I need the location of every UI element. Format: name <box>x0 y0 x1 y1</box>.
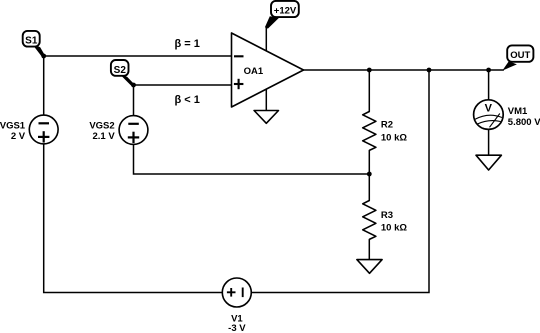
svg-text:β < 1: β < 1 <box>175 94 200 106</box>
svg-text:VGS2: VGS2 <box>89 121 114 132</box>
svg-text:10 kΩ: 10 kΩ <box>381 132 407 143</box>
svg-text:10 kΩ: 10 kΩ <box>381 222 407 233</box>
svg-text:VM1: VM1 <box>508 106 528 117</box>
svg-text:VGS1: VGS1 <box>0 121 26 132</box>
svg-text:2 V: 2 V <box>11 131 26 142</box>
svg-text:S2: S2 <box>114 65 127 76</box>
svg-text:V: V <box>485 103 493 115</box>
svg-text:S1: S1 <box>25 35 38 46</box>
svg-text:OA1: OA1 <box>244 66 264 77</box>
svg-text:2.1 V: 2.1 V <box>93 131 116 142</box>
svg-text:R2: R2 <box>381 120 393 131</box>
svg-text:OUT: OUT <box>510 50 530 61</box>
svg-text:+12V: +12V <box>274 6 297 17</box>
svg-text:-3 V: -3 V <box>228 323 246 333</box>
svg-text:5.800 V: 5.800 V <box>508 117 540 128</box>
svg-text:β = 1: β = 1 <box>175 38 200 50</box>
svg-text:R3: R3 <box>381 210 393 221</box>
